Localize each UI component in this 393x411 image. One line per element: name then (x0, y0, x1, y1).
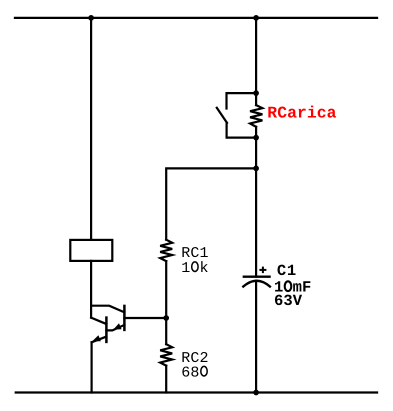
svg-text:RCarica: RCarica (267, 103, 336, 122)
switch top wire (227, 93, 257, 108)
Q1 base bar (123, 306, 126, 330)
wire: right bus from switch node to capacitor (255, 138, 257, 277)
Q1 emitter arrow (113, 323, 121, 329)
wire: right bus top segment (255, 18, 257, 93)
relay coil (box) (70, 240, 112, 261)
node dot at (256,137.6) (253, 135, 259, 141)
capacitor C1 top plate (244, 276, 270, 278)
node dot at (256,93) (253, 90, 259, 96)
wire: left vertical from coil to transistor collectors (90, 261, 92, 318)
node dot at RC1/RC2/base junction (163, 315, 169, 321)
transistor Q1 (upper darlington NPN) (91, 306, 124, 331)
node dot at (256,392.5) (253, 390, 259, 396)
wire: left vertical from top rail to relay coil (90, 18, 92, 240)
Q1 emitter (106, 325, 124, 331)
node dot at (91,18) (88, 15, 94, 21)
wire: junction to RC2 (165, 318, 167, 344)
wire: capacitor to ground rail (255, 281, 257, 393)
Q2 emitter arrow (92, 335, 101, 341)
Q2 emitter (92, 337, 107, 343)
Q2 base bar (105, 318, 108, 342)
wire: resistor RCarica bottom lead (255, 127, 257, 138)
node dot at (256,168) (253, 166, 259, 172)
wire: RC1 to junction (165, 261, 167, 318)
capacitor C1 bottom plate (arc) (243, 281, 270, 287)
resistor RC1 (160, 240, 172, 261)
switch (parallel pushbutton) (217, 93, 256, 138)
wire: middle vertical upper segment with corner to right bus (166, 168, 256, 239)
resistor RC2 (160, 344, 172, 365)
node dot at (256,18) (253, 15, 259, 21)
wire: Q1 base to resistor junction (124, 317, 166, 319)
switch bottom wire (227, 123, 257, 138)
svg-text:63V: 63V (274, 292, 303, 310)
resistor RCarica (250, 105, 262, 127)
Q2 collector (91, 318, 106, 324)
svg-text:C1: C1 (277, 262, 296, 280)
wire: RC2 to ground rail (165, 366, 167, 393)
capacitor C1 plus sign (259, 267, 266, 274)
switch blade (217, 108, 227, 123)
Q1 collector (91, 306, 124, 313)
bottom ground rail (16, 391, 377, 393)
transistor Q2 (lower darlington NPN) (91, 318, 106, 343)
wire: Q2 emitter down to ground rail (90, 342, 92, 392)
top supply rail (15, 17, 377, 19)
wire: resistor RCarica top lead (255, 93, 257, 105)
